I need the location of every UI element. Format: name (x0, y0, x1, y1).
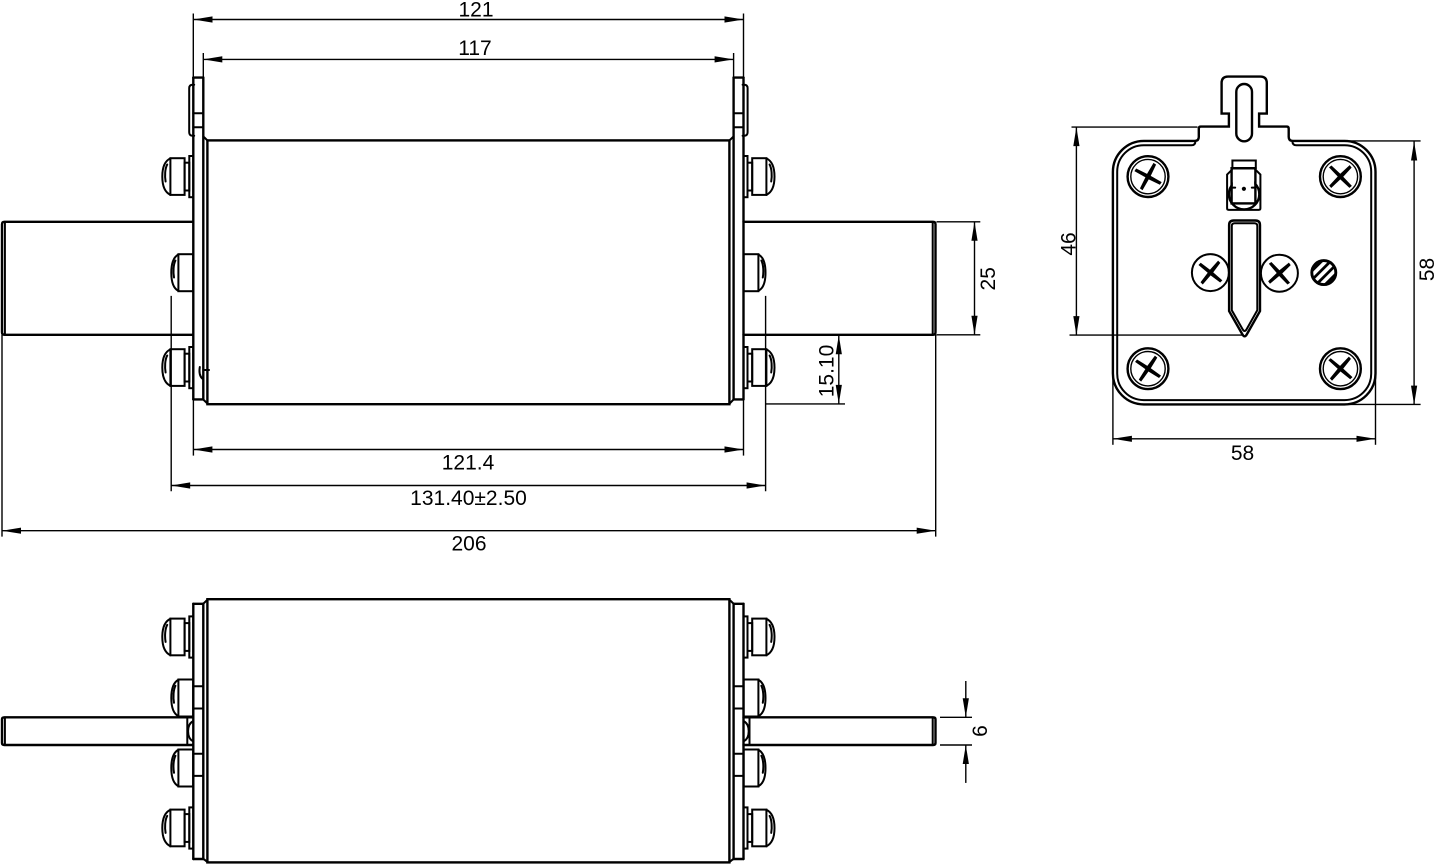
right blade clip arc (744, 721, 749, 741)
screw BR1 washer (744, 616, 748, 657)
screw BR4 head (752, 810, 766, 847)
dim 131.40 left arrow (171, 482, 190, 488)
dim 58 right top extension (1342, 140, 1421, 142)
right cap crimp tick 2 (734, 126, 744, 128)
screw BR4 neck (748, 814, 753, 842)
screw BL1 head (170, 619, 184, 656)
screw BL1 dome (162, 619, 170, 655)
dim 117 left extension (202, 53, 204, 78)
corner screw TR phillips cross (1320, 156, 1361, 197)
dim 15.10 bottom arrow (836, 385, 842, 404)
dim 117 left arrow (203, 56, 222, 62)
dim 58 right bottom arrow (1411, 386, 1417, 405)
hidden line tick artifact (205, 369, 209, 371)
dim 25 top arrow (971, 222, 977, 241)
dim 46 top arrow (1073, 127, 1079, 146)
svg-text:58: 58 (1416, 258, 1435, 281)
right cap top tick (734, 76, 744, 78)
body chamfer bottom-right (bottom view) (729, 859, 733, 863)
center screw left circle (1192, 254, 1229, 291)
screw BL4 washer (189, 807, 193, 848)
screw L3 head (170, 349, 184, 386)
left blade clip arc (188, 721, 193, 741)
corner screw TL inner circle (1131, 159, 1165, 193)
fuse body outline (207, 140, 729, 404)
screw BL2 dome shading (173, 686, 175, 703)
screw BR1 head (752, 619, 766, 656)
dim 46 top extension (1072, 126, 1198, 128)
blade pocket inner outline (1232, 223, 1258, 331)
hidden line hook artifact (199, 367, 202, 379)
svg-text:6: 6 (969, 725, 992, 737)
body corner chamfer top-left (203, 137, 207, 141)
left blade (bottom view) (2, 717, 193, 745)
screw L1 washer (189, 156, 193, 197)
svg-text:131.40±2.50: 131.40±2.50 (410, 487, 527, 510)
blade pocket outer outline (1229, 221, 1260, 337)
screw R2 dome shading (761, 261, 763, 278)
screw R2 head (744, 254, 759, 291)
dim 121 right arrow (725, 16, 744, 22)
corner screw BR phillips cross (1320, 348, 1361, 389)
dim 117 right extension (733, 53, 735, 78)
dim 25 bottom arrow (971, 316, 977, 335)
screw L1 head (170, 158, 184, 195)
screw R3 dome (766, 349, 774, 385)
striker indicator top band (1232, 161, 1255, 169)
screw L1 dome shading (165, 165, 167, 182)
striker indicator center dot (1242, 187, 1246, 191)
screw BR4 dome (766, 810, 774, 846)
striker indicator plate mask (1233, 169, 1254, 187)
screw BR1 neck (748, 623, 753, 651)
screw L2 dome (171, 255, 178, 291)
screw L1 dome (162, 158, 170, 194)
left cap crimp tick 1 (193, 112, 203, 114)
svg-text:206: 206 (451, 533, 486, 556)
screw BR1 dome shading (770, 625, 772, 642)
left cap outer edge (bottom view) (192, 604, 194, 859)
striker indicator ring (1229, 179, 1259, 209)
SIDE VIEW (1113, 77, 1376, 405)
striker indicator outer housing (1227, 169, 1260, 210)
left grip lug rolled edge (189, 85, 194, 136)
corner screw TL outer circle (1128, 156, 1169, 197)
corner screw BR outer circle (1320, 348, 1361, 389)
corner screw BL inner circle (1131, 352, 1165, 386)
corner screw TL phillips cross (1128, 157, 1167, 196)
dim 121.4 left extension (192, 399, 194, 455)
screw BL2 head (178, 680, 193, 717)
screw BR2 head (744, 680, 759, 717)
left blade root line (186, 717, 188, 745)
svg-text:117: 117 (458, 37, 491, 60)
screw BR3 head (744, 750, 759, 787)
dim 58 bottom right extension (1375, 370, 1377, 445)
corner screw TR outer circle (1320, 156, 1361, 197)
screw R3 dome shading (770, 356, 772, 373)
left cap top tick (193, 76, 203, 78)
dim 131.40 left extension (170, 296, 172, 491)
screw BL4 dome shading (165, 816, 167, 833)
screw BL4 neck (185, 814, 190, 842)
dim 121 left extension (192, 14, 194, 78)
dim 58 bottom left extension (1112, 370, 1114, 445)
screw L2 head (178, 254, 193, 291)
dim 58 right bottom extension (1342, 403, 1421, 405)
left cap bottom tick (bottom view) (193, 858, 203, 860)
dim 117 line (203, 58, 733, 60)
svg-text:15.10: 15.10 (816, 345, 839, 398)
screw R1 head (752, 158, 766, 195)
screw BR2 dome (758, 680, 765, 716)
right cap crimp tick 1 (734, 112, 744, 114)
screw L3 dome (162, 349, 170, 385)
body chamfer top-right (bottom view) (729, 599, 733, 603)
screw R1 neck (748, 163, 753, 191)
screw BL3 dome (171, 750, 178, 786)
striker indicator ring end ticks (1232, 187, 1255, 189)
screw BL4 dome (162, 810, 170, 846)
grip lug slot (1236, 84, 1252, 141)
dim 206 line (2, 530, 936, 532)
svg-text:25: 25 (977, 267, 1000, 290)
left end cap outer edge (192, 78, 194, 400)
fuse body outline (bottom view) (207, 599, 729, 862)
dim 46 line (1075, 127, 1077, 335)
screw L1 neck (185, 163, 190, 191)
svg-text:58: 58 (1231, 442, 1254, 465)
screw BR3 dome (758, 750, 765, 786)
center screw right phillips cross (1259, 253, 1299, 293)
corner screw BL phillips cross (1128, 348, 1169, 389)
dim 6 lower line and arrow (965, 745, 967, 783)
right cap bottom tick (bottom view) (734, 858, 744, 860)
right blade contact (744, 222, 936, 335)
striker indicator inner box (1232, 168, 1256, 203)
right blade (bottom view) (744, 717, 936, 745)
screw R3 neck (748, 354, 753, 382)
dim 131.40 right extension (765, 296, 767, 491)
dim 6 upper line and arrow (965, 681, 967, 717)
screw R1 dome (766, 158, 774, 194)
dim 121 left arrow (194, 16, 213, 22)
screw R1 dome shading (770, 165, 772, 182)
dim 121.4 right extension (743, 399, 745, 455)
dim 58 right top arrow (1411, 142, 1417, 161)
screw L3 neck (185, 354, 190, 382)
dim 117 right arrow (715, 56, 734, 62)
corner screw BL outer circle (1128, 348, 1169, 389)
screw BR1 dome (766, 619, 774, 655)
svg-text:121: 121 (458, 0, 493, 21)
screw BR4 washer (744, 807, 748, 848)
screw BL3 dome shading (173, 756, 175, 773)
dim 25 bottom extension (937, 334, 981, 336)
screw BR3 dome shading (761, 756, 763, 773)
dim 6 bottom extension (940, 744, 972, 746)
center screw right circle (1261, 255, 1298, 292)
right blade end chamfer line (932, 222, 934, 335)
right cap outer edge (bottom view) (742, 604, 744, 859)
dim 6 top extension (940, 716, 972, 718)
dim 15.10 bottom extension (766, 403, 845, 405)
screw R3 head (752, 349, 766, 386)
left cap crimp tick 2 (193, 126, 203, 128)
right end cap outer edge (742, 78, 744, 400)
screw R2 dome (758, 255, 765, 291)
BOTTOM VIEW (2, 599, 936, 862)
left cap inner edge (bottom view) (202, 604, 204, 859)
screw BL4 head (170, 810, 184, 847)
end cap face outer outline with grip lug (1113, 77, 1376, 405)
left blade end line (bottom view) (4, 718, 6, 745)
screw L3 washer (189, 347, 193, 388)
left cap bottom tick (193, 398, 203, 400)
right cap blade-slot crimp ticks (734, 686, 744, 776)
dim 58 right line (1413, 142, 1415, 405)
dim 131.40 right arrow (747, 482, 766, 488)
dim 25 line (974, 222, 976, 335)
FRONT VIEW (2, 78, 936, 405)
right blade end line (bottom view) (932, 718, 934, 745)
body corner chamfer top-right (729, 137, 733, 141)
center screw left phillips cross (1191, 253, 1231, 293)
screw R1 washer (744, 156, 748, 197)
left cap blade-slot crimp ticks (193, 686, 203, 776)
left blade contact (2, 222, 193, 335)
left blade end chamfer line (4, 222, 6, 335)
screw L3 dome shading (165, 356, 167, 373)
dim 58 bottom line (1113, 438, 1376, 440)
dim 58 bottom left arrow (1113, 436, 1132, 442)
dim 58 bottom right arrow (1357, 436, 1376, 442)
svg-text:46: 46 (1058, 232, 1081, 255)
screw R3 washer (744, 347, 748, 388)
left end cap inner edge (202, 78, 204, 400)
dim 131.40 line (171, 485, 765, 487)
screw BL1 washer (189, 616, 193, 657)
right cap bottom tick (734, 398, 744, 400)
screw BL2 dome (171, 680, 178, 716)
dim 15.10 top arrow (836, 335, 842, 354)
right end cap inner edge (732, 78, 734, 400)
left cap top tick (bottom view) (193, 603, 203, 605)
body chamfer top-left (bottom view) (203, 599, 207, 603)
body chamfer bottom-left (bottom view) (203, 859, 207, 863)
dim 206 right extension (935, 335, 937, 537)
screw BL3 head (178, 750, 193, 787)
screw L2 dome shading (173, 261, 175, 278)
screw BR2 dome shading (761, 686, 763, 703)
dim 25 top extension (937, 221, 981, 223)
screw BL1 dome shading (165, 625, 167, 642)
dim 206 left arrow (2, 528, 21, 534)
dim 121 line (194, 19, 744, 21)
dim 206 right arrow (917, 528, 936, 534)
dim 206 left extension (1, 335, 3, 537)
dim 121.4 line (193, 449, 743, 451)
right cap inner edge (bottom view) (732, 604, 734, 859)
dim 121.4 left arrow (193, 446, 212, 452)
right grip lug rolled edge (743, 85, 748, 136)
dim 46 bottom extension (1070, 334, 1244, 336)
body corner chamfer bottom-left (203, 400, 208, 404)
corner screw TR inner circle (1323, 159, 1357, 193)
svg-text:121.4: 121.4 (442, 452, 495, 475)
dim 121.4 right arrow (725, 446, 744, 452)
corner screw BR inner circle (1323, 352, 1357, 386)
dim 121 right extension (743, 14, 745, 78)
dim 46 bottom arrow (1073, 316, 1079, 335)
right blade root line (749, 717, 751, 745)
right cap top tick (bottom view) (734, 603, 744, 605)
end cap face inner outline (1117, 141, 1371, 400)
dim 15.10 line (838, 335, 840, 404)
screw BR4 dome shading (770, 816, 772, 833)
indicator hatched circle (1312, 261, 1336, 285)
body corner chamfer bottom-right (729, 400, 733, 404)
screw BL1 neck (185, 623, 190, 651)
